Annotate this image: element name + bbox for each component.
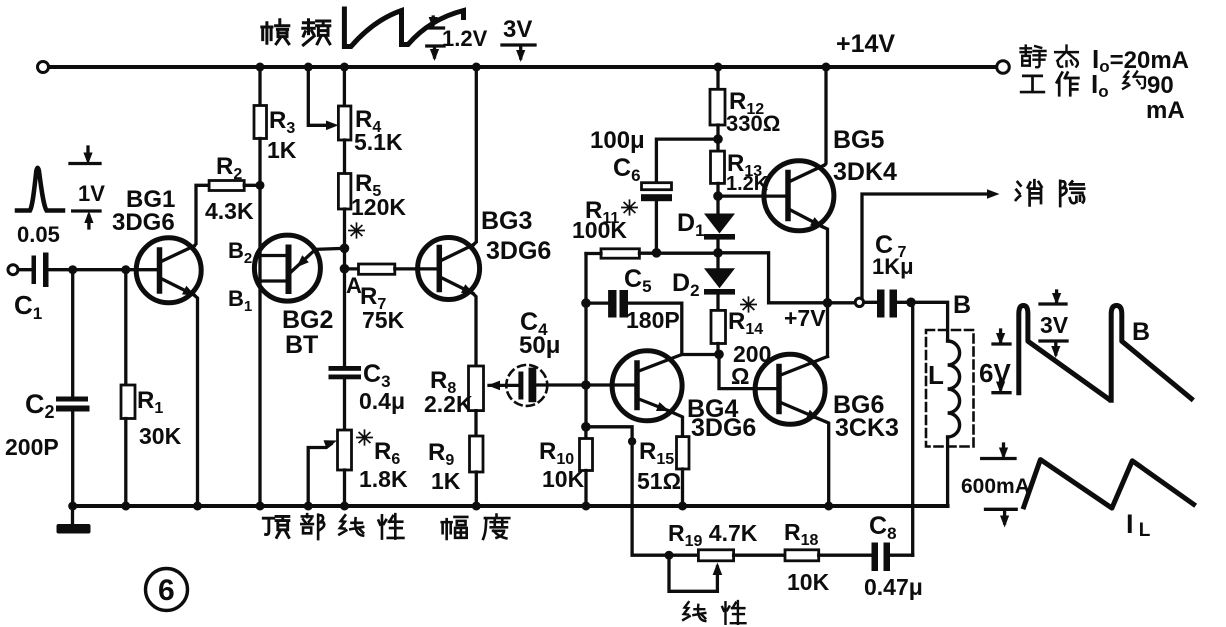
- 线性 linearity label: [683, 602, 705, 621]
- resistor R15: [677, 437, 690, 469]
- 6V dimension marks: [993, 330, 1010, 393]
- svg-text:5.1K: 5.1K: [354, 129, 403, 155]
- wire C1 to BG1 base: [49, 268, 160, 271]
- node A junction: [340, 264, 350, 274]
- BG4 emitter wire to R15: [668, 411, 683, 437]
- figure number 6: [146, 569, 188, 611]
- top supply rail: [49, 65, 997, 69]
- svg-text:3CK3: 3CK3: [835, 414, 899, 442]
- resistor R6 (variable): [338, 430, 352, 470]
- R6 wiper arrow: [308, 444, 331, 506]
- svg-text:BG3: BG3: [481, 207, 532, 235]
- svg-text:2.2K: 2.2K: [424, 391, 473, 417]
- node rail R12 tap: [714, 63, 723, 72]
- BG3 collector wire to rail: [473, 67, 476, 245]
- wire R2/R3 junction down to BG2 bases and ground rail: [258, 185, 261, 506]
- 600mA dimension marks: [982, 444, 1017, 523]
- BG1 collector wire to R2: [194, 185, 209, 246]
- 幅度 amplitude label: [442, 517, 468, 539]
- capacitor C6 (electrolytic): [656, 139, 718, 183]
- node R14 bottom / BG6 base junction: [714, 350, 724, 360]
- svg-text:100μ: 100μ: [590, 127, 645, 154]
- svg-text:50μ: 50μ: [519, 332, 560, 359]
- node R13 / BG5 base / D1 junction: [713, 191, 723, 201]
- svg-text:330Ω: 330Ω: [726, 111, 780, 136]
- diode D1: [704, 214, 735, 234]
- node R2/R3 junction: [256, 181, 265, 190]
- svg-text:100K: 100K: [572, 217, 627, 243]
- svg-text:0.4μ: 0.4μ: [359, 388, 405, 414]
- resistor R12: [716, 67, 719, 89]
- transistor BG6: [755, 354, 825, 424]
- node C4/R10/BG4-base junction: [581, 380, 591, 390]
- node C6 bottom tap: [652, 248, 662, 258]
- node C5 tap: [581, 298, 591, 308]
- input pulse waveform: [17, 168, 63, 211]
- node rail R4 top: [340, 63, 349, 72]
- +7V line: [769, 301, 855, 304]
- node R10 branch junction: [581, 422, 591, 432]
- resistor R19 (pot) with wiper jumper: [698, 550, 733, 561]
- 静态 Io=20mA annotation: [1021, 46, 1046, 68]
- 帧频 input sawtooth waveform: [344, 9, 463, 47]
- svg-text:75K: 75K: [362, 307, 405, 333]
- right rail terminal +14V: [997, 61, 1010, 74]
- 顶部线性 top-linearity label: [263, 516, 289, 537]
- svg-text:10K: 10K: [542, 466, 585, 492]
- svg-text:L: L: [928, 360, 944, 390]
- vertical feedback line R11/C5 to base node, down to R10: [584, 254, 587, 427]
- svg-text:BG2: BG2: [282, 306, 333, 334]
- wire base-node branch to linearity pot R19: [586, 427, 698, 555]
- svg-text:3DK4: 3DK4: [833, 158, 897, 186]
- node C2 tap: [68, 265, 77, 274]
- svg-text:1K: 1K: [431, 468, 461, 494]
- open node at C7: [855, 298, 863, 306]
- svg-text:1K: 1K: [267, 137, 297, 163]
- 3V dimension marks on waveform: [1040, 291, 1067, 354]
- svg-text:mA: mA: [1146, 97, 1185, 124]
- svg-text:600mA: 600mA: [961, 475, 1030, 498]
- resistor R1: [124, 274, 127, 385]
- capacitor C7: [864, 301, 877, 304]
- svg-text:1.8K: 1.8K: [359, 466, 408, 492]
- svg-text:200P: 200P: [5, 434, 59, 460]
- transistor BG4: [586, 383, 636, 386]
- BG6 collector wire up to +7V line: [826, 303, 829, 357]
- ground: [71, 506, 74, 524]
- svg-text:BT: BT: [285, 331, 318, 359]
- resistor R9: [470, 436, 484, 472]
- diode D2: [704, 268, 735, 288]
- BG3 emitter wire down to R8: [473, 294, 476, 367]
- svg-text:3DG6: 3DG6: [691, 414, 756, 442]
- transistor BG3: [418, 238, 480, 300]
- svg-text:3V: 3V: [1040, 312, 1069, 338]
- wire to deflection coil branch: [911, 302, 948, 341]
- R4 wiper arrow: [308, 67, 331, 125]
- svg-text:+7V: +7V: [784, 305, 826, 331]
- transistor BG2 (unijunction BT): [254, 235, 320, 301]
- transistor BG1: [136, 238, 201, 303]
- capacitor C8: [872, 543, 879, 572]
- node output B junction: [906, 298, 916, 308]
- R8 wiper arrow from C4: [489, 384, 518, 387]
- capacitor C1: [32, 256, 37, 285]
- 1.2V dimension marks: [427, 17, 444, 57]
- BG6 emitter wire to ground rail: [818, 419, 829, 507]
- svg-text:1.2V: 1.2V: [442, 26, 488, 51]
- svg-text:6: 6: [158, 574, 175, 607]
- svg-text:B: B: [1132, 318, 1150, 346]
- resistor R10: [584, 427, 587, 439]
- wire R5 down through node A to C3: [343, 209, 346, 366]
- svg-text:4.3K: 4.3K: [205, 198, 254, 224]
- svg-text:180P: 180P: [626, 307, 680, 333]
- node R19 jumper tap: [665, 551, 674, 560]
- node D1/D2 junction: [713, 248, 723, 258]
- resistor R4 (variable): [343, 67, 346, 106]
- svg-text:1Kμ: 1Kμ: [872, 254, 914, 279]
- bottom ground rail: [72, 504, 948, 508]
- resistor R5: [338, 174, 351, 210]
- BG5 emitter wire down to +7V line: [822, 227, 828, 303]
- svg-text:B: B: [953, 291, 971, 319]
- output waveform B: [1019, 306, 1192, 401]
- node BG5-emitter/BG6-collector tap: [823, 298, 833, 308]
- resistor R2: [209, 181, 244, 191]
- svg-text:1V: 1V: [78, 181, 105, 206]
- svg-text:BG5: BG5: [833, 126, 885, 154]
- capacitor C4 with dashed circle: [506, 365, 547, 406]
- svg-text:Ω: Ω: [731, 363, 749, 389]
- svg-text:3V: 3V: [503, 16, 532, 43]
- 工作 Io约90mA annotation: [1021, 76, 1044, 92]
- 1V dimension marks: [70, 147, 100, 228]
- node C6 top tap: [713, 134, 723, 144]
- svg-text:120K: 120K: [351, 194, 406, 220]
- svg-text:51Ω: 51Ω: [637, 468, 681, 494]
- BG1 emitter wire to ground rail: [194, 295, 198, 506]
- BG5 collector wire to rail: [825, 67, 827, 165]
- svg-text:90: 90: [1147, 72, 1174, 99]
- 帧频 frame-frequency label: [262, 20, 289, 44]
- wire C8 up to output node B: [911, 302, 914, 555]
- svg-text:30K: 30K: [139, 423, 182, 449]
- resistor R7: [345, 267, 359, 270]
- resistor R14: [711, 310, 726, 343]
- svg-text:0.05: 0.05: [17, 222, 60, 247]
- resistor R3: [256, 63, 265, 72]
- svg-text:0.47μ: 0.47μ: [864, 574, 923, 600]
- svg-text:10K: 10K: [787, 569, 830, 595]
- left rail terminal: [38, 62, 49, 73]
- node rail R4-wiper tap: [304, 63, 313, 72]
- wire input to C1: [18, 268, 31, 271]
- inductor L (deflection coil): [948, 341, 960, 437]
- svg-text:+14V: +14V: [836, 30, 895, 58]
- capacitor C2: [71, 274, 74, 396]
- 消隐 label: [1016, 180, 1042, 205]
- svg-text:6V: 6V: [979, 358, 1011, 388]
- transistor BG5: [718, 194, 787, 197]
- wire junction down and right to BG6 base: [719, 354, 778, 388]
- capacitor C3: [329, 366, 362, 371]
- wire R4 to R5: [343, 140, 346, 174]
- node R1 tap: [121, 265, 130, 274]
- wire R8 to R9: [474, 411, 477, 436]
- svg-text:3DG6: 3DG6: [486, 237, 551, 265]
- resistor R13: [711, 151, 725, 183]
- svg-text:R19 4.7K: R19 4.7K: [668, 520, 758, 550]
- resistor R18: [734, 554, 785, 557]
- capacitor C5: [586, 301, 608, 304]
- wire R11 to D-junction and on to +7V line: [639, 253, 768, 303]
- input terminal: [8, 265, 18, 275]
- blanking output line 消隐: [862, 194, 988, 299]
- resistor R8 (pot): [469, 366, 484, 411]
- resistor R11: [601, 249, 639, 258]
- svg-text:3DG6: 3DG6: [112, 209, 175, 236]
- coil current waveform IL: [1024, 460, 1194, 509]
- node BG2 emitter / R5 junction: [340, 244, 350, 254]
